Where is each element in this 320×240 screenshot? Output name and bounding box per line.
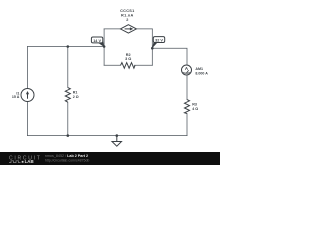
- wire: right node to ammeter branch: [152, 48, 187, 65]
- wire: bottom rail: [28, 135, 188, 137]
- wire: ammeter to R3: [186, 75, 188, 100]
- wire: I1 branch upper: [27, 47, 29, 89]
- ammeter AM1: [182, 65, 209, 76]
- svg-text:8.000 A: 8.000 A: [195, 72, 208, 76]
- svg-text:R1: R1: [73, 91, 78, 95]
- junction node left rail / rect left edge: [103, 45, 106, 48]
- footer bar: [0, 152, 220, 165]
- resistor R2: [121, 53, 136, 68]
- wire: top edge left of CCCS: [104, 28, 120, 30]
- svg-text:14 V: 14 V: [93, 39, 101, 43]
- junction node right edge / ammeter wire: [151, 47, 154, 50]
- wire: I1 branch lower: [27, 102, 29, 136]
- node flag 32 V: [152, 37, 165, 49]
- svg-text:4 Ω: 4 Ω: [192, 107, 198, 111]
- wire: R1 branch lower: [67, 102, 69, 135]
- svg-text:15 A: 15 A: [12, 95, 20, 99]
- junction node bottom rail at R1: [67, 134, 70, 137]
- wire: bottom edge left of R2: [104, 64, 120, 66]
- junction node bottom rail at ground: [116, 134, 119, 137]
- CCCS U1 (diamond with right arrow): [120, 9, 136, 33]
- svg-text:R3: R3: [192, 102, 197, 106]
- node flag 14 V: [91, 37, 104, 47]
- svg-text:LAB: LAB: [25, 159, 34, 164]
- wire: top-left rail: [28, 46, 105, 48]
- wire: rectangle right edge: [151, 29, 153, 65]
- svg-text:32 V: 32 V: [155, 39, 163, 43]
- svg-text:2 Ω: 2 Ω: [73, 95, 79, 99]
- svg-text:nmos_8452 / Lab 2 Part 2: nmos_8452 / Lab 2 Part 2: [45, 154, 88, 158]
- wire: R1 branch upper: [67, 47, 69, 88]
- wire: bottom edge right of R2: [135, 64, 153, 66]
- resistor R1: [65, 88, 78, 103]
- wire: R3 to bottom rail: [186, 114, 188, 136]
- resistor R3: [185, 100, 199, 114]
- ground: [112, 136, 122, 147]
- svg-text:R1.nA: R1.nA: [121, 14, 133, 18]
- wire: top edge right of CCCS: [136, 28, 152, 30]
- wire: rectangle left edge: [103, 29, 105, 65]
- svg-text:http://circuitlab.com/c4875db: http://circuitlab.com/c4875db: [45, 159, 90, 163]
- current source I1: [12, 89, 34, 102]
- svg-text:2: 2: [126, 18, 128, 22]
- junction node on left rail at R1: [67, 45, 70, 48]
- svg-text:AM1: AM1: [195, 67, 203, 71]
- svg-text:3 Ω: 3 Ω: [125, 57, 131, 61]
